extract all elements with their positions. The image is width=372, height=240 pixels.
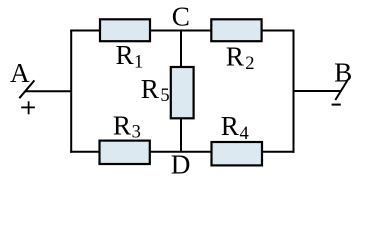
svg-text:B: B (334, 58, 352, 88)
terminal B slash (335, 81, 347, 100)
plus sign at A (21, 106, 35, 108)
resistor R5 body (171, 67, 194, 118)
svg-text:4: 4 (240, 124, 249, 144)
resistor R1 body (100, 19, 150, 41)
terminal A slash (19, 80, 34, 98)
svg-text:5: 5 (160, 86, 169, 106)
wire: left vertical (70, 30, 72, 153)
svg-text:2: 2 (245, 54, 254, 74)
resistor R2 body (211, 19, 261, 41)
minus sign at B (332, 104, 341, 106)
svg-text:R: R (113, 111, 132, 141)
svg-text:R: R (226, 42, 245, 72)
svg-text:R: R (141, 74, 160, 104)
wire: terminal A lead (26, 90, 72, 92)
svg-text:A: A (10, 58, 30, 88)
resistor R3 body (100, 141, 150, 164)
svg-text:D: D (171, 150, 191, 180)
wire: terminal B lead (293, 90, 340, 92)
wire: top horizontal (left node to right node through R1,R2) (70, 30, 294, 32)
svg-text:C: C (172, 1, 190, 31)
resistor R4 body (212, 142, 263, 165)
svg-text:R: R (116, 40, 135, 70)
svg-text:R: R (221, 111, 240, 141)
svg-text:1: 1 (134, 52, 143, 72)
wire: right vertical (293, 30, 295, 153)
svg-text:3: 3 (132, 123, 141, 143)
wire: center vertical C to D through R5 (180, 31, 182, 152)
wire: bottom horizontal (through R3,R4) (70, 151, 294, 153)
